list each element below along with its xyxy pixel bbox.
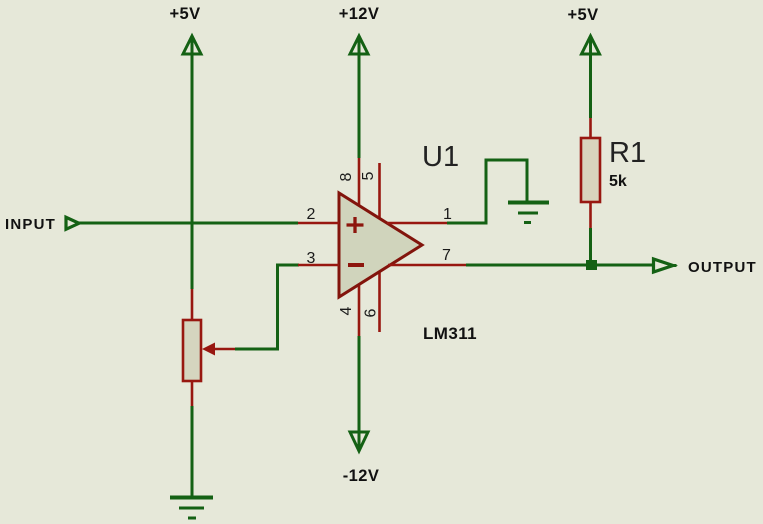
svg-text:OUTPUT: OUTPUT [688, 259, 757, 276]
svg-text:5k: 5k [609, 173, 627, 190]
svg-text:+5V: +5V [567, 6, 598, 24]
svg-text:2: 2 [307, 206, 316, 223]
svg-text:1: 1 [443, 206, 452, 223]
svg-text:3: 3 [307, 250, 316, 267]
svg-text:U1: U1 [422, 141, 459, 173]
svg-text:4: 4 [338, 306, 355, 315]
svg-text:7: 7 [442, 247, 451, 264]
svg-text:5: 5 [360, 171, 377, 180]
svg-text:LM311: LM311 [423, 324, 477, 343]
svg-text:R1: R1 [609, 137, 646, 169]
svg-text:-12V: -12V [343, 467, 379, 485]
svg-text:INPUT: INPUT [5, 216, 56, 233]
svg-text:+5V: +5V [169, 5, 200, 23]
svg-text:8: 8 [338, 172, 355, 181]
svg-text:+12V: +12V [339, 5, 380, 23]
svg-text:6: 6 [363, 308, 380, 317]
